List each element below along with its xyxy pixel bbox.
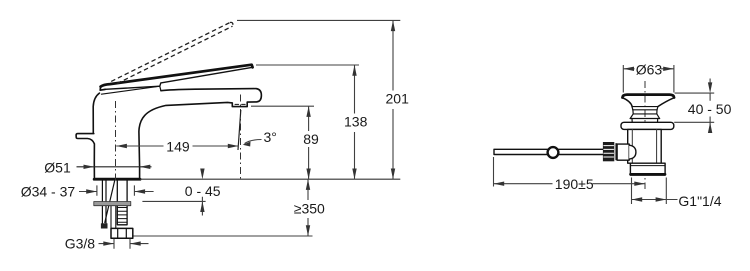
svg-text:3°: 3° xyxy=(264,129,277,145)
svg-text:201: 201 xyxy=(386,90,410,106)
svg-text:≥350: ≥350 xyxy=(294,200,325,216)
svg-text:G1"1/4: G1"1/4 xyxy=(678,193,721,209)
svg-text:40 - 50: 40 - 50 xyxy=(688,101,732,117)
svg-text:Ø34 - 37: Ø34 - 37 xyxy=(21,183,76,199)
svg-text:138: 138 xyxy=(344,113,368,129)
svg-text:89: 89 xyxy=(303,131,319,147)
svg-text:190±5: 190±5 xyxy=(555,176,594,192)
svg-text:0 - 45: 0 - 45 xyxy=(185,183,221,199)
svg-text:Ø51: Ø51 xyxy=(44,159,71,175)
svg-text:G3/8: G3/8 xyxy=(65,235,96,251)
svg-text:149: 149 xyxy=(166,139,190,155)
svg-text:Ø63: Ø63 xyxy=(636,61,663,77)
